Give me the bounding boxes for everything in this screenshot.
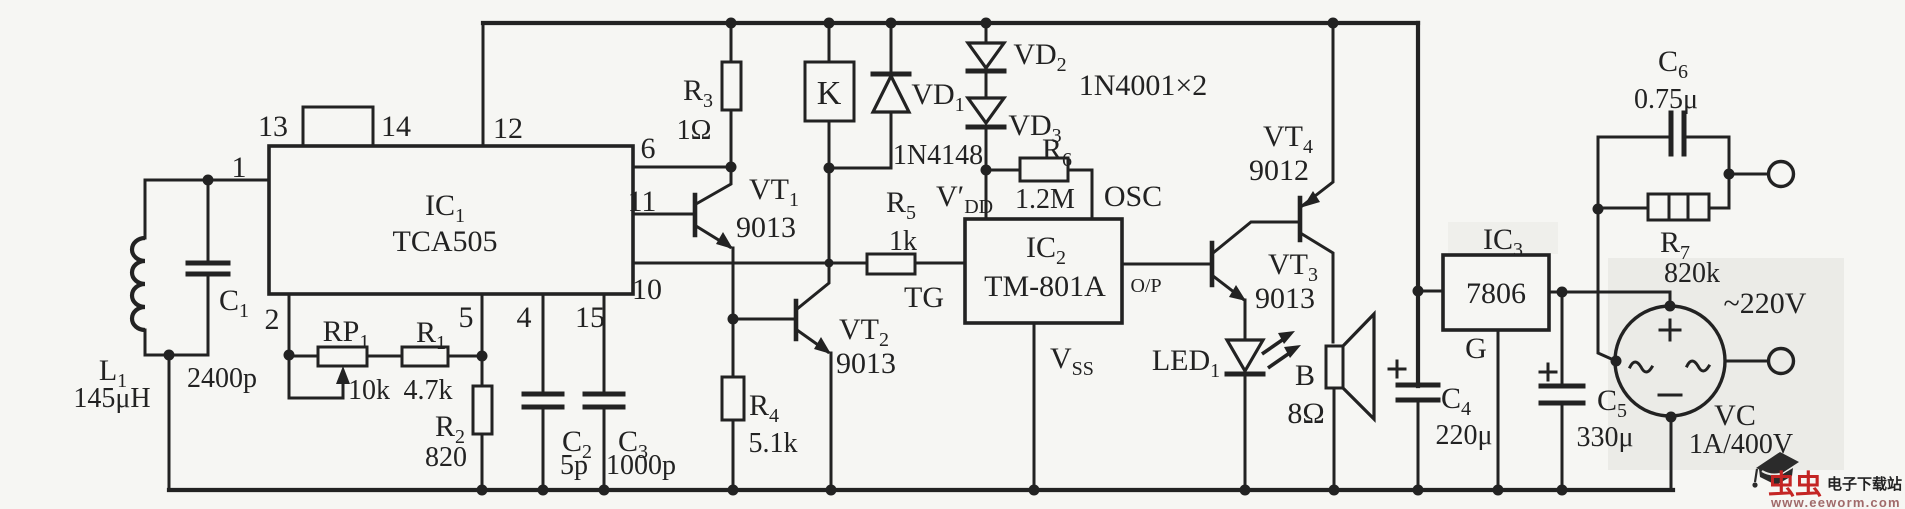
node VT1 emitter / VT2 base junction [728,314,739,325]
node K/pin10/VT2 collector junction [825,259,834,268]
node R7 left junction [1593,204,1604,215]
node K rail junction [824,18,835,29]
wire VT2 base [733,318,796,321]
svg-text:电子下载站: 电子下载站 [1827,475,1902,493]
svg-text:www.eeworm.com: www.eeworm.com [1770,495,1901,509]
node VDD/R6 junction [981,165,992,176]
node K/VD1 junction [824,163,835,174]
node C2 ground junction [538,485,549,496]
node VC ~ left junction [1611,356,1622,367]
svg-text:0.75μ: 0.75μ [1634,84,1698,115]
wire pin 11 horizontal [633,213,694,216]
svg-text:15: 15 [575,301,605,334]
timer IC2 TM-801A box [965,219,1122,323]
svg-text:14: 14 [381,110,411,143]
wire pin 15 vertical [603,294,606,394]
svg-text:10k: 10k [348,375,390,406]
wire pin 4 vertical [542,294,545,394]
svg-text:1N4001×2: 1N4001×2 [1079,69,1208,102]
capacitor C2 5p [524,394,592,490]
svg-text:5: 5 [459,301,474,334]
wire C6/R7 left branch vertical [1598,137,1616,361]
svg-text:5p: 5p [560,450,588,481]
wire IC2 O/P to VT3 base [1122,263,1212,266]
wire to upper output terminal [1729,173,1768,176]
svg-text:13: 13 [258,110,288,143]
wire pin2 to RP1 [289,355,318,358]
LED LED1 [1152,331,1301,490]
svg-text:820k: 820k [1664,258,1720,289]
svg-text:TCA505: TCA505 [393,225,498,258]
svg-text:9013: 9013 [1255,282,1315,315]
wire top supply rail [483,21,1418,25]
svg-text:10: 10 [632,273,662,306]
svg-text:1.2M: 1.2M [1015,184,1075,215]
wire 7806 G to ground [1497,330,1500,490]
terminal lower output [1769,349,1794,374]
svg-text:6: 6 [641,132,656,165]
svg-text:1000p: 1000p [606,450,676,481]
resistor R5 1k [867,186,917,274]
node bottom-left junction [164,350,175,361]
svg-text:LED1: LED1 [1152,344,1220,382]
transistor VT2 9013 [796,263,896,490]
wire pin 2 vertical [288,294,291,398]
wire pin 10 horizontal to R5 [633,262,867,265]
capacitor C3 1000p [585,394,676,490]
node VC - bottom junction [1666,412,1677,423]
node C5 ground junction [1557,485,1568,496]
node C6 right junction [1724,169,1735,180]
svg-text:K: K [817,75,842,112]
svg-text:2: 2 [265,303,280,336]
svg-text:330μ: 330μ [1576,422,1633,453]
op-amp IC1 TCA505 box [269,146,633,294]
node G ground junction [1493,485,1504,496]
resistor R6 1.2M [986,133,1092,219]
svg-text:9013: 9013 [836,347,896,380]
svg-text:OSC: OSC [1104,180,1162,213]
svg-text:1Ω: 1Ω [677,115,712,146]
svg-text:4: 4 [517,301,532,334]
diode VD1 1N4148 [873,23,983,171]
svg-text:~220V: ~220V [1724,287,1807,320]
regulator IC3 7806 box [1443,223,1549,330]
logo graduation cap [1752,452,1799,488]
node pin1/C1 junction [203,175,214,186]
wire 7806 output to VC + [1549,292,1670,306]
terminal upper output [1769,162,1794,187]
node C5 junction [1557,287,1568,298]
svg-text:4.7k: 4.7k [404,375,453,406]
node R3/pin6/VT1 collector junction [726,162,737,173]
capacitor C1 2400p [187,180,257,394]
svg-text:1k: 1k [889,226,917,257]
node R2 ground junction [477,485,488,496]
wire VD2 to VD3 [985,71,988,98]
pin 13-14 bridge on IC1 top [303,107,373,146]
wire VC bottom to ground rail [1670,417,1673,490]
wire pin 5 vertical [481,294,484,386]
node pin5/R1/R2 junction [477,351,488,362]
inductor L1 145μH [73,180,150,414]
node LED1 ground junction [1240,485,1251,496]
svg-text:145μH: 145μH [73,383,150,414]
svg-text:220μ: 220μ [1435,420,1492,451]
wire R5 to IC2 TG [915,262,965,265]
svg-text:9012: 9012 [1249,154,1309,187]
svg-text:7806: 7806 [1466,277,1526,310]
diode VD3 [968,98,1062,219]
wire K to VD1 bottom [829,167,891,170]
capacitor C6 0.75μ [1598,45,1729,174]
node VC + junction [1665,301,1676,312]
node R4 ground junction [728,485,739,496]
transistor VT4 9012 [1249,23,1333,342]
node VD2 rail junction [981,18,992,29]
capacitor C4 220μ polarized [1389,361,1493,490]
transistor VT3 9013 [1212,222,1318,340]
resistor R7 820k [1598,174,1729,289]
resistor R3 1Ω [677,23,741,167]
svg-text:1N4148: 1N4148 [893,140,983,171]
wire pin12 vertical to rail [482,23,485,146]
node VT2 emitter ground junction [826,485,837,496]
svg-text:VC: VC [1714,399,1756,432]
node R3 rail junction [726,18,737,29]
wire rail drop to C4 / 7806 [1416,23,1420,386]
node pin2/RP1 junction [284,350,295,361]
transistor VT1 9013 [695,167,799,377]
svg-text:5.1k: 5.1k [749,428,798,459]
wire L1 to C1 bottom link [145,354,208,357]
bridge rectifier VC [1615,306,1793,460]
wire VC right to lower terminal [1725,360,1768,363]
node C4 ground junction [1413,485,1424,496]
node VT4 emitter rail junction [1328,18,1339,29]
wire pin 6 horizontal [633,166,731,169]
resistor R4 5.1k [722,377,798,490]
svg-text:820: 820 [425,442,467,473]
resistor R1 4.7k [402,316,453,406]
svg-text:8Ω: 8Ω [1287,397,1324,430]
svg-text:2400p: 2400p [187,363,257,394]
svg-text:O/P: O/P [1130,275,1161,297]
svg-text:9013: 9013 [736,211,796,244]
wire bottom ground rail [169,488,1673,492]
svg-text:TG: TG [904,281,944,314]
wire pin 1 horizontal [145,179,269,182]
svg-text:G: G [1465,332,1487,365]
node C3 ground junction [599,485,610,496]
potentiometer RP1 10k [289,315,390,406]
svg-text:TM-801A: TM-801A [984,270,1106,303]
relay K [805,23,854,263]
capacitor C5 330μ polarized [1540,292,1634,490]
node speaker ground junction [1329,485,1340,496]
resistor R2 820 [425,386,492,473]
node C4 / 7806 input junction [1413,286,1424,297]
wire IC2 Vss to ground [1033,323,1036,490]
node Vss ground junction [1029,485,1040,496]
svg-text:B: B [1295,359,1315,392]
wire RP1 to R1 [367,355,402,358]
wire to 7806 input [1418,290,1443,293]
svg-text:1: 1 [232,151,247,184]
speaker B 8Ω [1287,314,1374,490]
wire R2 to ground [481,434,484,490]
diode VD2 [968,23,1067,76]
node VD1 rail junction [886,18,897,29]
svg-text:12: 12 [493,112,523,145]
wire R1 to pin5 [448,355,482,358]
wire left drop from L1/C1 node to ground rail [168,355,171,490]
